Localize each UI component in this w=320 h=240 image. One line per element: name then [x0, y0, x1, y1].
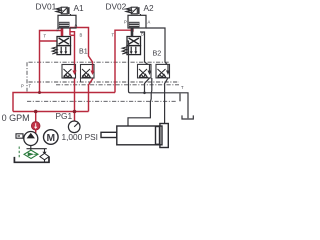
svg-text:DV02: DV02	[106, 1, 127, 11]
svg-text:P: P	[124, 20, 127, 25]
svg-text:T: T	[29, 84, 32, 89]
svg-text:B: B	[80, 33, 83, 38]
svg-text:DV01: DV01	[36, 1, 57, 11]
svg-text:A2: A2	[144, 3, 155, 13]
svg-text:T: T	[181, 85, 184, 90]
svg-text:B: B	[141, 32, 144, 37]
svg-text:P: P	[57, 28, 60, 33]
svg-text:T: T	[44, 34, 47, 39]
svg-text:A1: A1	[74, 3, 85, 13]
svg-text:A: A	[148, 20, 151, 25]
svg-text:B2: B2	[153, 49, 162, 58]
svg-text:B1: B1	[79, 47, 88, 56]
svg-text:PG1: PG1	[56, 111, 73, 121]
svg-text:1,000 PSI: 1,000 PSI	[62, 132, 98, 142]
svg-text:P: P	[21, 84, 24, 89]
svg-text:A: A	[75, 23, 78, 28]
svg-text:M: M	[47, 133, 56, 144]
svg-text:0 GPM: 0 GPM	[2, 113, 30, 123]
svg-text:T: T	[112, 33, 115, 38]
